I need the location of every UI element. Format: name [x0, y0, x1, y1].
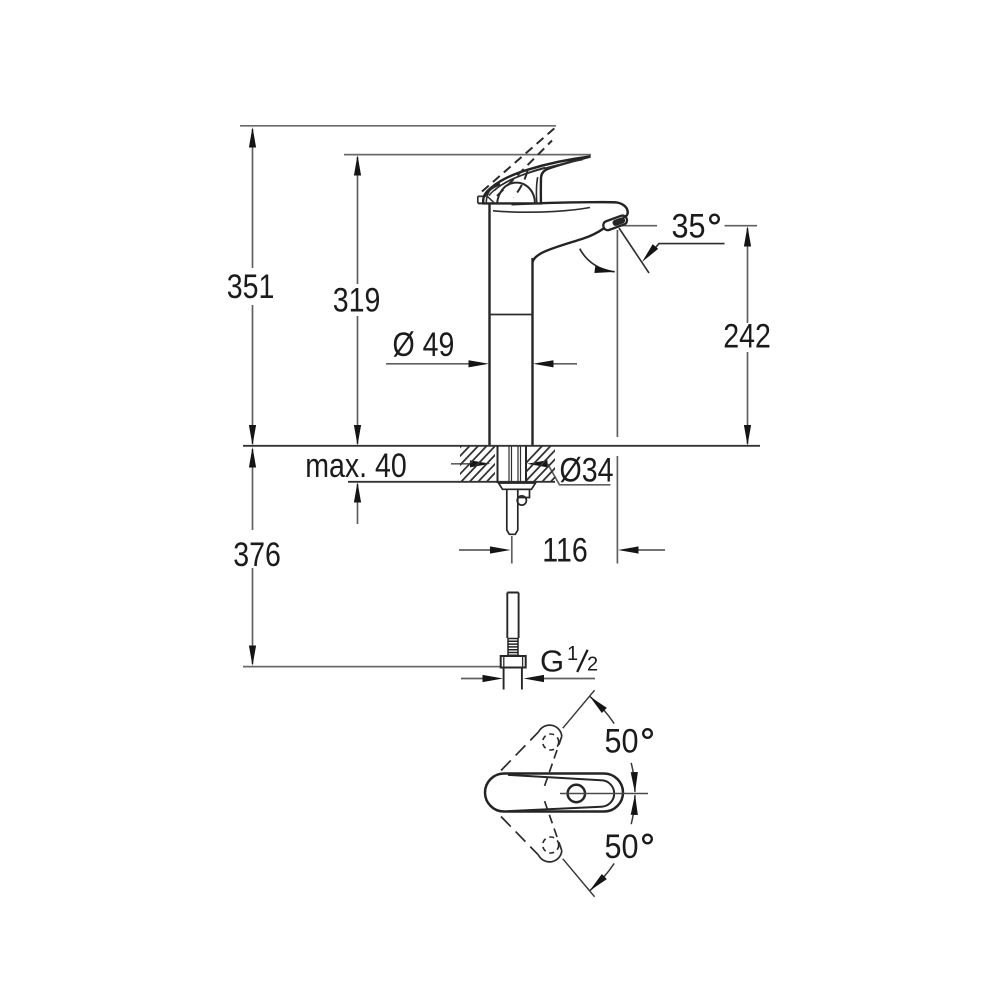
vertical reference line below spout tip	[616, 230, 618, 564]
extension line top (351 level)	[240, 125, 556, 127]
lever nose arc	[486, 187, 494, 204]
dimension Ø49	[386, 363, 577, 365]
cartridge dome arc	[497, 183, 535, 204]
svg-text:max. 40: max. 40	[305, 447, 407, 485]
spout underside	[533, 229, 604, 263]
centerline	[560, 793, 648, 795]
lower 50° ray	[563, 859, 595, 897]
open lever dashed outline	[482, 127, 557, 192]
screw circle	[568, 785, 585, 802]
body top / dome base line	[478, 202, 536, 204]
svg-text:2: 2	[587, 654, 598, 676]
lower rotated lever dashed	[501, 797, 562, 862]
countertop top line	[243, 445, 760, 447]
dimension 376 line	[252, 449, 254, 664]
nut	[501, 656, 526, 668]
dimension 242 line	[747, 228, 749, 444]
outer base outline	[485, 774, 623, 812]
lower tube below nut	[504, 668, 522, 690]
svg-text:319: 319	[333, 281, 381, 319]
extension line bottom (376 level, G1/2 plane)	[243, 666, 501, 668]
countertop bottom line	[348, 481, 555, 483]
base shading tick	[488, 197, 495, 204]
body seam line	[490, 314, 533, 316]
svg-text:G: G	[540, 644, 564, 679]
lever second inner line	[489, 168, 545, 196]
svg-text:35: 35	[671, 207, 705, 245]
inner lever outline	[508, 775, 614, 811]
nipple round detail	[517, 496, 526, 505]
lever nose thick edge	[484, 184, 500, 197]
upper 50° arc segments	[590, 696, 615, 723]
35° arc with arrow	[580, 249, 615, 272]
water stream diagonal	[619, 228, 649, 273]
upper dashed circle	[543, 734, 559, 750]
shank through countertop	[498, 446, 527, 483]
lever neck inner line	[536, 177, 537, 203]
countertop hatching left block	[425, 444, 523, 484]
label G 1/2	[540, 643, 598, 679]
lower supply tube	[507, 593, 518, 639]
lever inner highlight line	[495, 160, 584, 191]
svg-text:Ø34: Ø34	[560, 451, 614, 489]
35 degree: extension line from spout tip	[621, 225, 758, 227]
washer below countertop	[499, 483, 536, 489]
lever blade	[483, 157, 590, 204]
extension line (319 level)	[344, 154, 591, 156]
svg-text:376: 376	[233, 536, 281, 574]
countertop hatching right block	[506, 444, 587, 484]
svg-text:116: 116	[542, 531, 588, 569]
upper rotated lever dashed	[501, 725, 562, 790]
svg-text:351: 351	[227, 268, 275, 306]
35° leader with arrow	[650, 244, 725, 254]
dimension 351 line	[252, 129, 254, 444]
dimension 319 line	[357, 157, 359, 444]
lower 50° arc segments	[590, 863, 615, 890]
dimension 116	[459, 549, 665, 551]
svg-text:50: 50	[604, 828, 638, 866]
dimension Ø34 leader	[451, 464, 611, 485]
aerator at spout tip	[602, 214, 628, 231]
svg-text:50: 50	[604, 722, 638, 760]
svg-text:Ø 49: Ø 49	[393, 326, 455, 364]
svg-text:1: 1	[567, 643, 578, 665]
spout top edge	[512, 202, 628, 217]
left lip	[478, 196, 490, 203]
faucet body column	[490, 203, 533, 445]
lower dashed circle	[543, 837, 559, 853]
side nipple	[518, 489, 530, 497]
max.40 lower arrow	[357, 484, 359, 524]
mounting rod	[507, 489, 518, 534]
upper 50° ray	[563, 690, 595, 728]
dimension G1/2	[461, 678, 595, 680]
thread section	[508, 638, 519, 656]
open lever swing dashed arc	[514, 171, 528, 198]
open lever dashed second line	[497, 141, 552, 197]
faucet axis tick at 116	[511, 536, 513, 564]
spout highlight line	[493, 208, 590, 213]
svg-text:242: 242	[723, 317, 771, 355]
